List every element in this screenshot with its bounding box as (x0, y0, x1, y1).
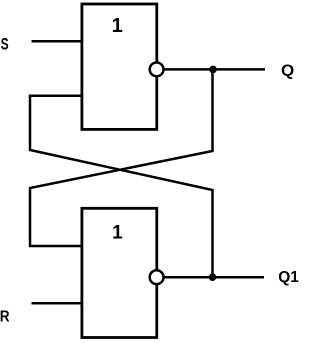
svg-text:Q1: Q1 (278, 269, 299, 286)
svg-text:1: 1 (112, 15, 123, 37)
svg-text:1: 1 (112, 222, 123, 243)
svg-text:R: R (0, 308, 10, 325)
svg-text:S: S (1, 36, 9, 54)
svg-text:Q: Q (281, 62, 294, 79)
